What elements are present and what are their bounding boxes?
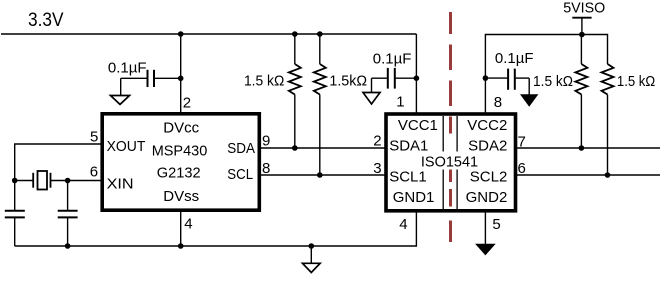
resistor R3 1.5k pullup SDA2 bbox=[575, 35, 587, 149]
node junction rail/R1 bbox=[292, 31, 298, 37]
svg-text:SDA1: SDA1 bbox=[389, 138, 428, 155]
wire ground bottom rail bbox=[15, 210, 417, 246]
resistor R1 1.5k pullup SDA bbox=[289, 34, 301, 148]
node junction R1/SDA bbox=[292, 145, 298, 151]
IC U1 MSP430G2132 box bbox=[102, 114, 259, 210]
svg-text:0.1µF: 0.1µF bbox=[373, 51, 412, 68]
capacitor C2 load cap left bbox=[5, 211, 25, 246]
svg-text:4: 4 bbox=[184, 216, 192, 233]
svg-text:5: 5 bbox=[90, 128, 98, 145]
svg-text:VCC2: VCC2 bbox=[467, 117, 507, 134]
wire GND2 pin5 drop bbox=[484, 210, 486, 244]
node junction bottom rail/ground stem bbox=[309, 243, 315, 249]
node junction R4/SCL2 bbox=[605, 172, 611, 178]
svg-text:1: 1 bbox=[396, 94, 404, 111]
svg-text:XIN: XIN bbox=[107, 175, 134, 192]
wire SCL net MSP430 to ISO1541 bbox=[259, 174, 386, 176]
svg-text:VCC1: VCC1 bbox=[398, 117, 438, 134]
wire VCC1 drop from rail bbox=[415, 34, 417, 114]
power 5VISO supply symbol bbox=[572, 18, 591, 35]
wire XOUT pin5 bbox=[15, 144, 102, 211]
svg-text:5: 5 bbox=[492, 216, 500, 233]
svg-text:1.5 kΩ: 1.5 kΩ bbox=[533, 73, 573, 90]
node junction rail/R2 bbox=[317, 31, 323, 37]
node junction R3/SDA2 bbox=[579, 145, 585, 151]
svg-text:6: 6 bbox=[518, 160, 526, 177]
svg-text:5VISO: 5VISO bbox=[563, 0, 605, 17]
svg-text:8: 8 bbox=[494, 94, 502, 111]
svg-text:4: 4 bbox=[399, 216, 407, 233]
node junction XTAL right / XIN bbox=[65, 178, 71, 184]
capacitor C3 load cap right bbox=[58, 181, 78, 247]
svg-text:3.3V: 3.3V bbox=[28, 9, 64, 31]
svg-text:8: 8 bbox=[262, 160, 270, 177]
svg-text:1.5 kΩ: 1.5 kΩ bbox=[617, 73, 655, 90]
wire DVcc pin2 drop bbox=[180, 34, 182, 113]
ISO1541 inner channel line left bbox=[442, 116, 444, 209]
ground GND for C4 bbox=[363, 93, 380, 105]
svg-text:SCL1: SCL1 bbox=[389, 169, 427, 186]
resistor R4 1.5k pullup SCL2 bbox=[602, 64, 614, 175]
node junction R2/SCL bbox=[317, 172, 323, 178]
wire 3.3V top rail bbox=[1, 33, 416, 35]
wire SCL2 net bbox=[515, 174, 660, 176]
svg-text:ISO1541: ISO1541 bbox=[421, 154, 478, 171]
node junction 5VISO stem/rail bbox=[579, 32, 585, 38]
capacitor C5 0.1uF VCC2 bypass bbox=[485, 69, 529, 95]
svg-text:GND2: GND2 bbox=[466, 189, 508, 206]
svg-text:SCL2: SCL2 bbox=[470, 169, 508, 186]
svg-text:6: 6 bbox=[90, 164, 98, 181]
label ISO1541 background patch bbox=[418, 152, 480, 170]
svg-text:SDA2: SDA2 bbox=[468, 138, 507, 155]
svg-text:GND1: GND1 bbox=[393, 189, 435, 206]
wire SDA2 net bbox=[515, 147, 660, 149]
node junction rail/pin2 bbox=[178, 31, 184, 37]
wire SDA net MSP430 to ISO1541 bbox=[259, 147, 386, 149]
resistor R2 1.5k pullup SCL bbox=[314, 34, 326, 175]
svg-text:1.5 kΩ: 1.5 kΩ bbox=[244, 72, 284, 89]
capacitor C4 0.1uF VCC1 bypass bbox=[372, 68, 417, 93]
ground GND for C1 bbox=[111, 96, 130, 105]
svg-text:2: 2 bbox=[183, 94, 191, 111]
svg-text:SCL: SCL bbox=[227, 166, 253, 183]
svg-text:G2132: G2132 bbox=[157, 164, 201, 181]
svg-text:SDA: SDA bbox=[227, 140, 255, 157]
svg-text:1.5kΩ: 1.5kΩ bbox=[329, 72, 367, 89]
svg-text:3: 3 bbox=[373, 160, 381, 177]
IC U2 ISO1541 box bbox=[386, 114, 516, 211]
isolation barrier dashed line bbox=[449, 12, 452, 242]
node junction C4/VCC1 wire bbox=[414, 75, 420, 81]
svg-text:0.1µF: 0.1µF bbox=[495, 50, 534, 67]
svg-text:7: 7 bbox=[518, 134, 526, 151]
capacitor C1 0.1uF bypass bbox=[121, 70, 181, 96]
svg-text:9: 9 bbox=[262, 133, 270, 150]
svg-text:DVss: DVss bbox=[163, 188, 199, 205]
svg-text:XOUT: XOUT bbox=[107, 138, 146, 155]
svg-text:DVcc: DVcc bbox=[163, 120, 199, 137]
ISO1541 inner channel line right bbox=[456, 116, 458, 209]
svg-text:0.1µF: 0.1µF bbox=[108, 59, 147, 76]
svg-text:2: 2 bbox=[373, 133, 381, 150]
node junction XTAL left bbox=[12, 178, 18, 184]
wire DVss pin4 drop bbox=[180, 210, 182, 246]
wire 5VISO rail bbox=[485, 35, 607, 115]
ground isolated GND2 for C5 bbox=[521, 95, 537, 106]
svg-text:MSP430: MSP430 bbox=[152, 142, 208, 159]
crystal Y1 bbox=[15, 171, 102, 190]
node junction bottom rail/C3 bbox=[65, 243, 71, 249]
node junction C1/pin2 wire bbox=[178, 76, 184, 82]
ground isolated GND2 pin5 bbox=[476, 244, 494, 254]
node junction C5/VCC2 wire bbox=[483, 75, 489, 81]
ground GND bottom bbox=[303, 246, 321, 273]
node junction bottom rail/DVss bbox=[178, 243, 184, 249]
